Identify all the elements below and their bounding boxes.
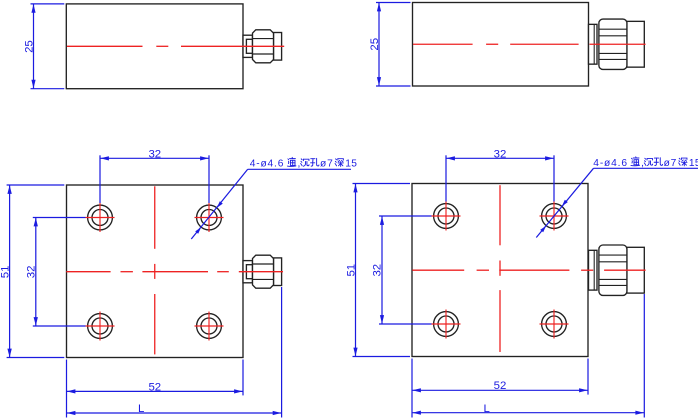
svg-text:L: L	[484, 403, 490, 415]
N connector knurled nut	[599, 19, 627, 69]
hole at (446,216) outer circle	[434, 204, 459, 229]
body outline side view B	[413, 3, 589, 87]
svg-text:51: 51	[0, 266, 11, 279]
svg-text:32: 32	[372, 264, 384, 277]
dimension 51 line (fig4)	[355, 184, 357, 357]
dimension 51 extension bottom (fig4)	[353, 356, 411, 358]
svg-text:25: 25	[369, 38, 381, 51]
horizontal centerline figure4	[412, 269, 464, 271]
hole crosshair	[540, 215, 569, 217]
dimension 52 extension left (fig4)	[411, 359, 413, 418]
hole at (446,216) inner circle	[438, 208, 454, 224]
dimension 25 extension top (fig2)	[376, 2, 411, 4]
dimension 25 line (fig2)	[378, 3, 380, 87]
N connector knurled nut	[599, 245, 627, 295]
svg-text:52: 52	[148, 381, 161, 393]
SMA connector hex nut	[253, 255, 274, 288]
dimension 32 top line (fig4)	[446, 157, 554, 159]
SMA nut facet line lower	[253, 53, 274, 55]
svg-text:52: 52	[494, 380, 507, 392]
svg-text:,: ,	[298, 158, 301, 169]
dimension 52 extension left (fig3)	[66, 360, 68, 418]
dimension 32 top extension left (fig4)	[445, 155, 447, 201]
N connector washer	[589, 24, 598, 64]
dimension L extension right (fig4)	[643, 294, 645, 418]
body outline side view A	[66, 4, 243, 89]
dimension 25 extension bottom (fig2)	[376, 85, 411, 87]
N nut facet line 2	[599, 261, 627, 263]
svg-text:15: 15	[345, 158, 357, 169]
N connector washer inner line	[593, 250, 595, 290]
N nut facet line 3	[599, 278, 627, 280]
dimension L extension right (fig3)	[281, 287, 283, 418]
dimension 32 top line (fig3)	[100, 157, 209, 159]
N connector barrel	[627, 21, 644, 67]
leader underline fig4	[594, 167, 698, 169]
dimension 32 left extension top (fig3)	[33, 217, 86, 219]
hole at (100,326) outer circle	[88, 314, 113, 339]
dimension 25 extension bottom	[31, 88, 65, 90]
hole at (554,324) inner circle	[546, 316, 562, 332]
N nut facet line 4	[599, 284, 627, 286]
SMA connector barrel	[274, 33, 282, 61]
leader underline fig3	[248, 168, 351, 170]
body outline front view A	[67, 185, 244, 358]
dimension 32 top extension left (fig3)	[99, 155, 101, 203]
svg-text:4-ø4.6: 4-ø4.6	[593, 158, 628, 169]
hole at (209,217.5) outer circle	[197, 205, 222, 230]
dimension 52 line (fig3)	[67, 390, 244, 392]
dimension L line (fig4)	[412, 412, 644, 414]
SMA nut facet line upper	[253, 38, 274, 40]
centerline figure2	[413, 43, 473, 45]
dimension L line (fig3)	[67, 412, 282, 414]
hole at (100,217.5) outer circle	[88, 205, 113, 230]
hole at (209,326) inner circle	[201, 318, 217, 334]
dimension 32 left extension top (fig4)	[379, 215, 432, 217]
hole at (100,326) inner circle	[92, 318, 108, 334]
dimension 52 extension right (fig3)	[242, 360, 244, 396]
svg-text:4-ø4.6: 4-ø4.6	[250, 158, 285, 169]
vertical centerline figure4	[499, 185, 501, 245]
hole crosshair	[540, 323, 569, 325]
hole at (100,217.5) inner circle	[92, 210, 108, 226]
hole at (446,324) outer circle	[434, 312, 459, 337]
N nut facet line 1	[599, 28, 627, 30]
N connector washer inner line	[593, 24, 595, 64]
svg-text:32: 32	[26, 266, 38, 279]
hole at (209,326) outer circle	[197, 314, 222, 339]
dimension 32 left extension bottom (fig3)	[33, 325, 86, 327]
hole at (554,216) inner circle	[546, 208, 562, 224]
dimension 32 top extension right (fig3)	[208, 155, 210, 203]
horizontal centerline figure3	[66, 271, 110, 273]
svg-text:,: ,	[641, 158, 644, 169]
svg-text:15: 15	[689, 158, 698, 169]
N nut facet line 3	[599, 52, 627, 54]
svg-text:25: 25	[23, 40, 35, 53]
leader line fig3	[191, 169, 247, 239]
hole crosshair	[86, 217, 115, 219]
dimension 32 top extension right (fig4)	[553, 155, 555, 201]
dimension 52 line (fig4)	[412, 389, 588, 391]
centerline figure1	[67, 45, 143, 47]
dimension 32 left extension bottom (fig4)	[379, 323, 432, 325]
dimension 25 line	[33, 4, 35, 89]
SMA connector flange	[243, 35, 253, 57]
vertical centerline figure3	[154, 186, 156, 249]
hole crosshair	[86, 325, 115, 327]
dimension 52 extension right (fig4)	[587, 359, 589, 395]
SMA connector hex nut	[253, 30, 274, 63]
hole at (554,216) outer circle	[542, 204, 567, 229]
hole crosshair	[195, 325, 224, 327]
svg-text:ø7: ø7	[664, 158, 678, 169]
hole crosshair	[432, 323, 461, 325]
SMA connector flange	[243, 261, 253, 283]
SMA nut facet line upper	[253, 263, 274, 265]
N nut facet line 1	[599, 254, 627, 256]
SMA connector barrel	[274, 258, 282, 286]
svg-text:L: L	[138, 403, 144, 415]
SMA connector inner step	[246, 39, 252, 53]
svg-text:32: 32	[148, 149, 161, 161]
dimension 32 left line (fig3)	[35, 218, 37, 327]
hole at (446,324) inner circle	[438, 316, 454, 332]
hole crosshair	[195, 217, 224, 219]
SMA connector inner step	[246, 265, 252, 279]
dimension 32 left line (fig4)	[381, 216, 383, 324]
hole at (209,217.5) inner circle	[201, 210, 217, 226]
dimension 51 extension top (fig4)	[353, 183, 411, 185]
dimension 51 extension bottom (fig3)	[7, 357, 65, 359]
hole crosshair	[432, 215, 461, 217]
N connector barrel	[627, 247, 644, 293]
dimension 25 extension top	[31, 3, 65, 5]
hole at (554,324) outer circle	[542, 312, 567, 337]
leader line fig4	[536, 168, 593, 237]
svg-text:51: 51	[345, 264, 357, 277]
N nut facet line 4	[599, 58, 627, 60]
SMA nut facet line lower	[253, 278, 274, 280]
N nut facet line 2	[599, 35, 627, 37]
svg-text:32: 32	[494, 149, 507, 161]
N connector washer	[589, 250, 598, 290]
body outline front view B	[412, 184, 588, 357]
svg-text:ø7: ø7	[320, 158, 334, 169]
dimension 51 extension top (fig3)	[7, 184, 65, 186]
dimension 51 line (fig3)	[9, 185, 11, 358]
